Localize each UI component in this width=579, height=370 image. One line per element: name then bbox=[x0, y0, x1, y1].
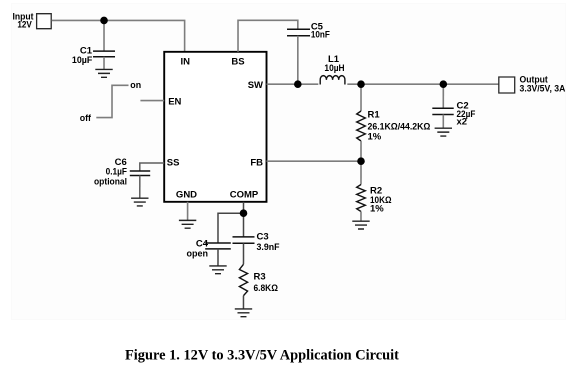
capacitor C2 bbox=[432, 108, 453, 114]
svg-text:3.9nF: 3.9nF bbox=[256, 242, 279, 253]
node: C2 junction bbox=[440, 80, 448, 88]
capacitor C5 bbox=[287, 29, 310, 36]
wire: R3 to ground bbox=[242, 296, 244, 309]
wire: inductor to output bbox=[347, 83, 499, 85]
wire: C5 to SW node bbox=[297, 36, 299, 84]
svg-text:FB: FB bbox=[250, 157, 263, 168]
wire: COMP node to C4 bbox=[218, 213, 244, 243]
node: input/C1 junction bbox=[100, 17, 108, 25]
svg-text:3.3V/5V, 3A: 3.3V/5V, 3A bbox=[520, 84, 566, 95]
ground (GND pin) bbox=[179, 220, 196, 228]
svg-text:1%: 1% bbox=[370, 204, 384, 215]
node: L1/R1 junction bbox=[357, 80, 365, 88]
wire: C2 to ground bbox=[442, 115, 444, 129]
capacitor C3 bbox=[232, 237, 254, 243]
wire: junction to C1 bbox=[103, 20, 105, 50]
svg-text:R3: R3 bbox=[253, 271, 265, 282]
svg-text:optional: optional bbox=[94, 177, 127, 188]
svg-text:GND: GND bbox=[176, 189, 197, 200]
svg-text:BS: BS bbox=[231, 56, 244, 67]
ground (R3) bbox=[235, 309, 252, 317]
svg-text:1%: 1% bbox=[368, 131, 382, 142]
svg-text:6.8KΩ: 6.8KΩ bbox=[253, 283, 278, 294]
op IC box U1 bbox=[164, 52, 266, 202]
resistor R3 bbox=[239, 264, 247, 295]
svg-text:off: off bbox=[80, 113, 92, 124]
wire: EN pin stub bbox=[140, 100, 164, 102]
svg-text:SS: SS bbox=[167, 157, 180, 168]
ground (R2) bbox=[352, 221, 369, 229]
wire: FB pin to node bbox=[267, 160, 362, 162]
svg-text:x2: x2 bbox=[457, 116, 468, 127]
wire: node to R1 bbox=[360, 84, 362, 111]
wire: R1 to FB node bbox=[360, 141, 362, 161]
wire: on/off switch bracket bbox=[96, 85, 128, 117]
wire: C4 to ground bbox=[217, 249, 219, 266]
svg-text:12V: 12V bbox=[17, 20, 32, 31]
svg-text:C3: C3 bbox=[256, 231, 268, 242]
ground (C4) bbox=[209, 266, 226, 274]
svg-text:SW: SW bbox=[248, 80, 263, 91]
ground (C1) bbox=[95, 69, 112, 77]
svg-text:on: on bbox=[130, 80, 141, 91]
svg-text:open: open bbox=[186, 249, 208, 260]
resistor R2 bbox=[357, 185, 366, 212]
wire: BS pin to C5 bbox=[238, 20, 298, 52]
inductor L1 bbox=[320, 76, 345, 85]
ground (C2) bbox=[435, 128, 452, 136]
capacitor C1 bbox=[93, 51, 115, 57]
node: SW/C5 junction bbox=[294, 80, 302, 88]
ground (C6) bbox=[131, 198, 148, 206]
wire: SW pin to inductor bbox=[267, 83, 319, 85]
svg-text:10nF: 10nF bbox=[311, 29, 330, 40]
input terminal box bbox=[37, 14, 52, 29]
node: FB junction bbox=[357, 157, 365, 165]
node: COMP junction bbox=[240, 209, 248, 217]
resistor R1 bbox=[357, 111, 366, 141]
wire: GND pin down bbox=[187, 202, 189, 220]
svg-text:EN: EN bbox=[168, 96, 181, 107]
capacitor C4 bbox=[205, 243, 231, 249]
wire: COMP node to C3 bbox=[242, 213, 244, 237]
svg-text:R1: R1 bbox=[368, 109, 381, 120]
wire: C2 node down bbox=[442, 84, 444, 108]
svg-text:IN: IN bbox=[180, 56, 190, 67]
output terminal box bbox=[499, 77, 515, 93]
wire: FB node to R2 bbox=[360, 161, 362, 184]
wire: COMP pin down bbox=[242, 202, 244, 213]
svg-text:COMP: COMP bbox=[230, 189, 259, 200]
svg-text:10µH: 10µH bbox=[324, 63, 344, 74]
capacitor C6 bbox=[130, 171, 150, 176]
wire: R2 to ground bbox=[360, 212, 362, 222]
svg-text:Figure 1. 12V to 3.3V/5V Appli: Figure 1. 12V to 3.3V/5V Application Cir… bbox=[125, 347, 399, 363]
wire: C1 to ground bbox=[103, 57, 105, 70]
wire: SS pin to C6 bbox=[140, 163, 164, 171]
wire: input to IN pin bbox=[52, 20, 185, 51]
wire: C3 to R3 bbox=[242, 243, 244, 264]
svg-text:10µF: 10µF bbox=[72, 55, 93, 66]
wire: C6 to ground bbox=[139, 175, 141, 198]
